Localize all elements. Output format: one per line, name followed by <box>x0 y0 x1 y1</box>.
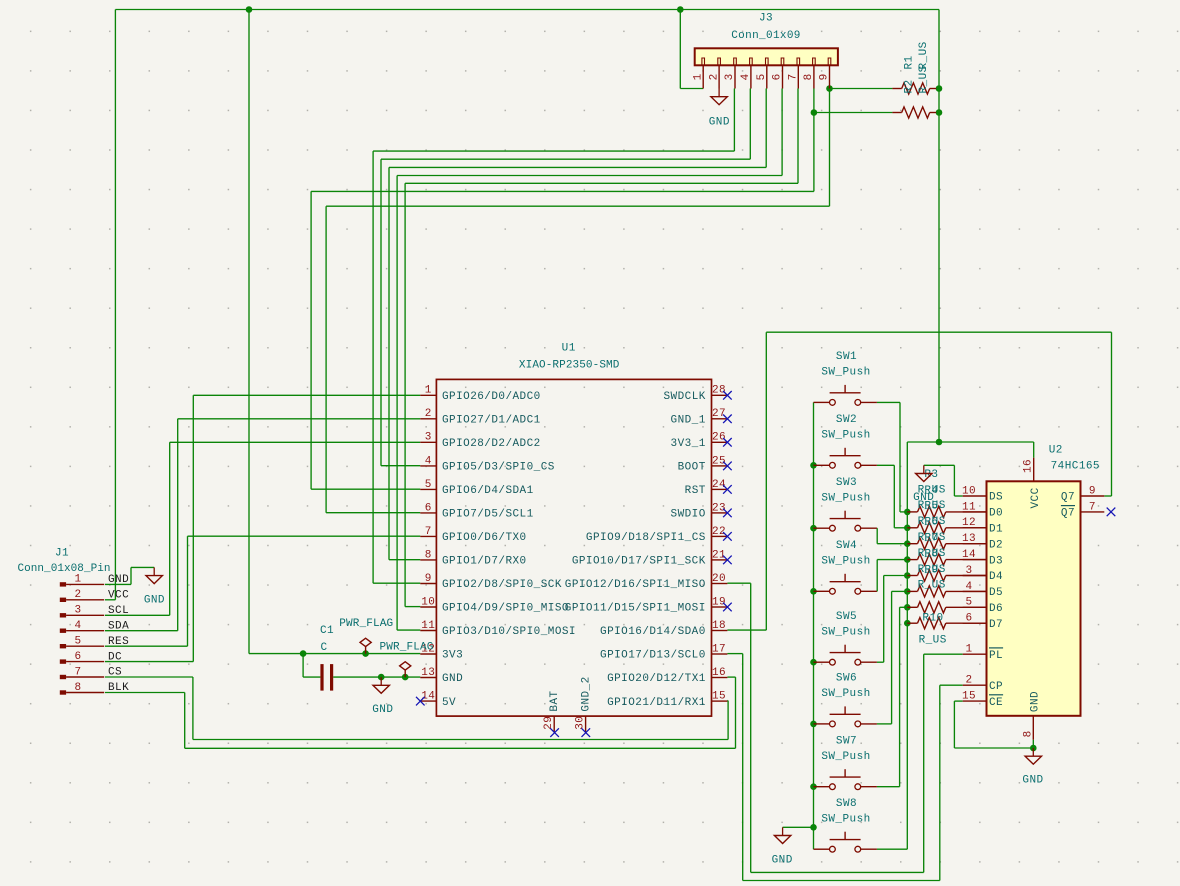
switch SW1 <box>814 401 830 403</box>
power flag PWR_FLAG1 <box>365 647 367 654</box>
wire SDA J1 pin4 to U1 pin2 <box>105 630 178 632</box>
svg-text:R9: R9 <box>924 564 938 576</box>
U1 pin 9 stub <box>420 583 436 585</box>
U1 pin 23 no-connect <box>723 509 732 518</box>
resistor R3 <box>907 511 917 513</box>
svg-text:2: 2 <box>708 73 720 80</box>
svg-text:GPIO2/D8/SPI0_SCK: GPIO2/D8/SPI0_SCK <box>442 579 562 591</box>
IC U1 body <box>436 379 711 716</box>
svg-text:1: 1 <box>425 385 432 397</box>
wire VCC top horizontal <box>115 9 939 11</box>
svg-text:SW4: SW4 <box>836 540 857 552</box>
wire SW4 to R6 row <box>876 590 878 592</box>
node junction U2 GND <box>1030 745 1037 752</box>
wire J3 pin1 to top <box>679 10 681 89</box>
svg-text:GND: GND <box>442 673 463 685</box>
svg-text:GND_1: GND_1 <box>671 415 706 427</box>
wire SW3 to R5 row <box>876 527 878 529</box>
svg-text:GND: GND <box>913 492 934 504</box>
svg-text:6: 6 <box>425 502 432 514</box>
wire U2 GND pin <box>1032 740 1034 748</box>
svg-text:PWR_FLAG: PWR_FLAG <box>379 642 433 654</box>
U1 pin 10 stub <box>420 606 436 608</box>
svg-text:6: 6 <box>74 651 81 663</box>
svg-text:CS: CS <box>108 667 122 679</box>
svg-text:GPIO1/D7/RX0: GPIO1/D7/RX0 <box>442 556 527 568</box>
svg-text:74HC165: 74HC165 <box>1051 460 1100 472</box>
node junction top J3 pin1 tap <box>677 6 684 13</box>
svg-text:5: 5 <box>965 597 972 609</box>
wire R1 left <box>830 88 893 90</box>
node junction R3 row <box>904 509 911 516</box>
wire VCC horizontal to U2 <box>907 441 1033 443</box>
U1 pin 1 stub <box>420 394 436 396</box>
svg-text:Q7: Q7 <box>1061 508 1075 520</box>
wire U2 DS to GND <box>924 464 955 466</box>
node junction SW6 bus <box>810 721 817 728</box>
U2 pin 10 stub <box>963 495 987 497</box>
switch SW4 <box>814 590 830 592</box>
U1 pin 21 stub <box>712 559 728 561</box>
U2 pin 2 stub <box>963 684 987 686</box>
J3 pin 5 stub <box>766 65 768 88</box>
U1 pin 19 no-connect <box>723 603 732 612</box>
U1 pin 20 stub <box>712 583 728 585</box>
svg-text:1: 1 <box>74 574 81 586</box>
svg-text:GPIO27/D1/ADC1: GPIO27/D1/ADC1 <box>442 415 541 427</box>
svg-text:1: 1 <box>692 73 704 80</box>
svg-text:SW8: SW8 <box>836 798 857 810</box>
svg-text:22: 22 <box>712 526 726 538</box>
svg-text:GPIO9/D18/SPI1_CS: GPIO9/D18/SPI1_CS <box>586 532 706 544</box>
ground symbol at U2 GND <box>1032 748 1034 756</box>
svg-text:Conn_01x08_Pin: Conn_01x08_Pin <box>17 563 110 575</box>
switch SW2 <box>814 464 830 466</box>
node junction R2/VCC <box>936 109 943 116</box>
node junction R4 row <box>904 525 911 532</box>
svg-text:2: 2 <box>965 675 972 687</box>
resistor R1 <box>902 83 930 94</box>
svg-text:7: 7 <box>1089 501 1096 513</box>
svg-text:R10: R10 <box>922 613 943 625</box>
U1 pin 26 stub <box>712 441 728 443</box>
U2 pin 11 stub <box>963 511 987 513</box>
ground symbol at J3 pin2 <box>718 89 720 97</box>
wire R2 right to VCC <box>936 112 939 114</box>
U1 pin 29 stub <box>553 716 555 732</box>
svg-text:GPIO6/D4/SDA1: GPIO6/D4/SDA1 <box>442 485 534 497</box>
svg-text:RES: RES <box>108 636 129 648</box>
wire U1 pin20 to U2 PL <box>727 582 750 584</box>
svg-text:21: 21 <box>712 549 726 561</box>
svg-text:6: 6 <box>772 73 784 80</box>
U1 pin 30 stub <box>585 716 587 732</box>
ground symbol at switch bus <box>782 827 784 835</box>
wire SW7 to R9 row <box>877 786 900 788</box>
svg-text:SW6: SW6 <box>836 673 857 685</box>
U2 pin 16 stub VCC <box>1033 458 1035 482</box>
svg-text:GPIO0/D6/TX0: GPIO0/D6/TX0 <box>442 532 527 544</box>
svg-text:5V: 5V <box>442 697 456 709</box>
svg-text:SW2: SW2 <box>836 414 857 426</box>
wire J1 pin1 to GND <box>105 583 131 585</box>
U1 pin 25 no-connect <box>723 462 732 471</box>
node junction R10 row <box>904 620 911 627</box>
wire DC J1 pin6 to U1 pin1 <box>105 661 193 663</box>
svg-text:SW_Push: SW_Push <box>821 813 870 825</box>
node junction R1/VCC <box>936 85 943 92</box>
resistor R8 <box>907 590 917 592</box>
svg-text:27: 27 <box>712 408 726 420</box>
J3 pin 4 stub <box>750 65 752 88</box>
svg-text:J3: J3 <box>759 13 773 25</box>
wire SW2 to R4 row <box>877 464 894 466</box>
wire J3 pin7 to U1 pin10 <box>797 89 799 184</box>
connector J3 body <box>695 48 838 65</box>
svg-text:GPIO16/D14/SDA0: GPIO16/D14/SDA0 <box>600 626 706 638</box>
U1 pin 5 stub <box>420 488 436 490</box>
svg-text:R2: R2 <box>904 79 916 93</box>
wire BLK J1 pin8 to U1 pin16 <box>105 692 185 694</box>
resistor R4 <box>907 527 917 529</box>
svg-text:SW_Push: SW_Push <box>821 556 870 568</box>
svg-text:7: 7 <box>425 526 432 538</box>
svg-text:25: 25 <box>712 455 726 467</box>
U1 pin 19 stub <box>712 606 728 608</box>
U1 pin 8 stub <box>420 559 436 561</box>
svg-text:14: 14 <box>962 549 976 561</box>
svg-text:SWDIO: SWDIO <box>671 509 706 521</box>
svg-text:GPIO7/D5/SCL1: GPIO7/D5/SCL1 <box>442 509 534 521</box>
svg-text:26: 26 <box>712 432 726 444</box>
svg-text:5: 5 <box>74 636 81 648</box>
wire J3 pin3 to U1 pin9 <box>733 89 735 152</box>
U1 pin 3 stub <box>420 441 436 443</box>
U2 pin 5 stub <box>963 606 987 608</box>
svg-text:SWDCLK: SWDCLK <box>663 391 705 403</box>
U1 pin 15 stub <box>712 700 728 702</box>
wire U2 VCC pin drop <box>1033 442 1035 458</box>
svg-text:17: 17 <box>712 643 726 655</box>
svg-text:12: 12 <box>962 517 976 529</box>
svg-text:9: 9 <box>1089 485 1096 497</box>
ground symbol at J1 pin1 <box>153 567 155 575</box>
svg-text:SW_Push: SW_Push <box>821 688 870 700</box>
IC U2 body <box>987 481 1081 716</box>
U1 pin 17 stub <box>712 653 728 655</box>
U1 pin 18 stub <box>712 630 728 632</box>
node junction R9 row <box>904 604 911 611</box>
svg-text:8: 8 <box>803 73 815 80</box>
power flag PWR_FLAG2 <box>404 670 406 677</box>
wire J3 pin5 to U1 pin8 <box>765 89 767 168</box>
svg-text:8: 8 <box>425 549 432 561</box>
wire SW1 to R3 row <box>877 401 900 403</box>
switch SW5 <box>814 661 830 663</box>
svg-text:23: 23 <box>712 502 726 514</box>
svg-text:16: 16 <box>1023 459 1035 473</box>
U1 pin 14 stub <box>420 700 436 702</box>
svg-text:U2: U2 <box>1049 445 1063 457</box>
svg-text:19: 19 <box>712 596 726 608</box>
svg-text:6: 6 <box>965 613 972 625</box>
svg-text:D0: D0 <box>989 508 1003 520</box>
svg-text:16: 16 <box>712 667 726 679</box>
svg-text:8: 8 <box>74 682 81 694</box>
J3 pin 6 stub <box>782 65 784 88</box>
node junction SW4 bus <box>810 588 817 595</box>
U2 pin 12 stub <box>963 527 987 529</box>
U1 pin 29 no-connect <box>550 728 559 737</box>
J3 pin 3 stub <box>734 65 736 88</box>
svg-text:D6: D6 <box>989 603 1003 615</box>
svg-text:15: 15 <box>712 691 726 703</box>
wire SCL J1 pin3 to U1 pin3 <box>105 614 170 616</box>
J3 pin 1 stub <box>702 65 704 88</box>
node junction SW7 bus <box>810 783 817 790</box>
U1 pin 21 no-connect <box>723 556 732 565</box>
svg-text:3: 3 <box>74 605 81 617</box>
J1 pin 3 <box>60 613 66 617</box>
svg-text:30: 30 <box>575 716 587 730</box>
U1 pin 22 stub <box>712 535 728 537</box>
node junction 3V3 cap branch <box>300 650 307 657</box>
svg-text:3: 3 <box>965 565 972 577</box>
svg-text:Q7: Q7 <box>1061 492 1075 504</box>
svg-text:BOOT: BOOT <box>678 462 706 474</box>
wire J3 pin8 to U1 pin5 <box>813 89 815 192</box>
svg-text:C: C <box>320 642 327 654</box>
svg-text:Conn_01x09: Conn_01x09 <box>731 30 801 42</box>
svg-text:GPIO11/D15/SPI1_MOSI: GPIO11/D15/SPI1_MOSI <box>565 603 706 615</box>
J1 pin 8 <box>60 690 66 694</box>
svg-text:24: 24 <box>712 479 726 491</box>
svg-text:28: 28 <box>712 385 726 397</box>
U1 pin 28 no-connect <box>723 391 732 400</box>
U2 pin 15 stub <box>963 700 987 702</box>
U1 pin 27 stub <box>712 418 728 420</box>
svg-text:3: 3 <box>425 432 432 444</box>
svg-text:R6: R6 <box>924 517 938 529</box>
svg-text:D4: D4 <box>989 571 1003 583</box>
svg-text:PWR_FLAG: PWR_FLAG <box>339 618 393 630</box>
svg-text:RST: RST <box>685 485 706 497</box>
node junction R7 row <box>904 572 911 579</box>
resistor R5 <box>907 543 917 545</box>
U1 pin 27 no-connect <box>723 415 732 424</box>
svg-text:SW7: SW7 <box>836 735 857 747</box>
U2 pin 1 stub <box>963 653 987 655</box>
wire C1 to U1 pin13 GND <box>333 676 420 678</box>
svg-text:SW_Push: SW_Push <box>821 626 870 638</box>
wire 3V3 vertical <box>248 10 250 654</box>
resistor R7 <box>907 575 917 577</box>
svg-text:GPIO4/D9/SPI0_MISO: GPIO4/D9/SPI0_MISO <box>442 603 569 615</box>
U1 pin 12 stub <box>420 653 436 655</box>
svg-text:5: 5 <box>425 479 432 491</box>
svg-text:GPIO26/D0/ADC0: GPIO26/D0/ADC0 <box>442 391 541 403</box>
svg-text:11: 11 <box>962 501 976 513</box>
node junction R5 row <box>904 540 911 547</box>
svg-text:8: 8 <box>1022 730 1034 737</box>
J1 pin 2 <box>60 598 66 602</box>
svg-text:7: 7 <box>74 666 81 678</box>
svg-text:13: 13 <box>421 667 435 679</box>
node junction VCC distribution <box>936 439 943 446</box>
svg-text:18: 18 <box>712 620 726 632</box>
svg-text:4: 4 <box>74 620 81 632</box>
svg-text:GND: GND <box>144 594 165 606</box>
wire R1 right to VCC <box>936 88 939 90</box>
svg-text:U1: U1 <box>562 343 576 355</box>
svg-text:SW_Push: SW_Push <box>821 492 870 504</box>
wire SW6 to R8 row <box>877 723 892 725</box>
svg-text:4: 4 <box>740 73 752 80</box>
J1 pin 1 <box>60 582 66 586</box>
svg-text:D7: D7 <box>989 619 1003 631</box>
U1 pin 4 stub <box>420 465 436 467</box>
U2 pin 14 stub <box>963 559 987 561</box>
svg-text:D5: D5 <box>989 587 1003 599</box>
svg-text:DS: DS <box>989 492 1003 504</box>
wire U2 CE to GND <box>954 700 962 702</box>
svg-text:SW_Push: SW_Push <box>821 751 870 763</box>
wire SW5 to R7 row <box>877 661 884 663</box>
wire RES J1 pin5 to U1 pin7 <box>105 645 188 647</box>
svg-text:CP: CP <box>989 681 1003 693</box>
J3 pin 9 stub <box>829 65 831 88</box>
wire J3 pin4 to U1 pin4 <box>749 89 751 160</box>
U2 pin 13 stub <box>963 543 987 545</box>
node junction J3 pin8 / R2 <box>811 109 818 116</box>
node junction PWR_FLAG1 <box>362 650 369 657</box>
J1 pin 4 <box>60 629 66 633</box>
svg-text:SW_Push: SW_Push <box>821 367 870 379</box>
svg-text:D1: D1 <box>989 524 1003 536</box>
J3 pin 8 stub <box>813 65 815 88</box>
node junction SW5 bus <box>810 659 817 666</box>
node junction SW2 bus <box>810 462 817 469</box>
svg-text:SW_Push: SW_Push <box>821 430 870 442</box>
U1 pin 28 stub <box>712 394 728 396</box>
wire U2 Q7 to U1 pin18 <box>1104 495 1111 497</box>
svg-text:J1: J1 <box>55 547 69 559</box>
svg-text:GND: GND <box>1029 691 1041 712</box>
U2 pin 4 stub <box>963 590 987 592</box>
wire C1 branch <box>302 654 304 678</box>
node junction top-left 3V3 tap <box>246 6 253 13</box>
svg-text:9: 9 <box>425 573 432 585</box>
svg-text:2: 2 <box>74 589 81 601</box>
svg-text:9: 9 <box>819 73 831 80</box>
svg-text:GPIO28/D2/ADC2: GPIO28/D2/ADC2 <box>442 438 541 450</box>
svg-text:5: 5 <box>756 73 768 80</box>
svg-text:VCC: VCC <box>1030 487 1042 508</box>
U2 pin 7 no-connect <box>1107 508 1116 517</box>
svg-text:GND: GND <box>772 854 793 866</box>
svg-text:4: 4 <box>965 581 972 593</box>
svg-text:C1: C1 <box>320 625 334 637</box>
switch SW7 <box>814 786 830 788</box>
svg-text:SW1: SW1 <box>836 351 857 363</box>
node junction R6 row <box>904 556 911 563</box>
svg-text:2: 2 <box>425 408 432 420</box>
resistor R2 <box>902 107 930 118</box>
svg-text:DC: DC <box>108 651 122 663</box>
svg-text:GPIO10/D17/SPI1_SCK: GPIO10/D17/SPI1_SCK <box>572 556 706 568</box>
wire J3 pin9 to U1 pin6 <box>829 89 831 207</box>
switch SW6 <box>814 723 830 725</box>
svg-text:GPIO12/D16/SPI1_MISO: GPIO12/D16/SPI1_MISO <box>565 579 706 591</box>
J1 pin 7 <box>60 675 66 679</box>
svg-text:10: 10 <box>962 485 976 497</box>
wire J3 pin6 to U1 pin11 <box>781 89 783 176</box>
wire VCC left vertical to J1 pin2 <box>114 10 116 600</box>
U1 pin 22 no-connect <box>723 532 732 541</box>
svg-text:GND_2: GND_2 <box>581 676 593 711</box>
wire SW8 to R10 row <box>877 848 907 850</box>
node junction PWR_FLAG2 <box>402 674 409 681</box>
node junction R8 row <box>904 588 911 595</box>
node junction SW3 bus <box>810 525 817 532</box>
svg-text:SCL: SCL <box>108 605 129 617</box>
node junction J3 pin9 <box>826 85 833 92</box>
svg-text:R8: R8 <box>924 548 938 560</box>
svg-text:D3: D3 <box>989 555 1003 567</box>
ground symbol at U2 DS <box>923 465 925 473</box>
U2 pin 6 stub <box>963 622 987 624</box>
svg-text:14: 14 <box>421 691 435 703</box>
U1 pin 23 stub <box>712 512 728 514</box>
svg-text:SDA: SDA <box>108 620 129 632</box>
J3 pin 7 stub <box>797 65 799 88</box>
svg-text:20: 20 <box>712 573 726 585</box>
svg-text:GND: GND <box>108 574 129 586</box>
svg-text:R_US: R_US <box>918 65 930 93</box>
switch SW8 <box>814 848 830 850</box>
U1 pin 13 stub <box>420 677 436 679</box>
wire VCC right vertical <box>938 10 940 443</box>
U2 pin 9 stub <box>1081 495 1105 497</box>
svg-text:GPIO21/D11/RX1: GPIO21/D11/RX1 <box>607 697 706 709</box>
wire VCC pull-up bus vertical <box>906 442 908 849</box>
svg-text:GPIO3/D10/SPI0_MOSI: GPIO3/D10/SPI0_MOSI <box>442 626 576 638</box>
J1 pin 5 <box>60 644 66 648</box>
J3 pin 2 stub <box>718 65 720 88</box>
U1 pin 24 no-connect <box>723 485 732 494</box>
svg-text:R_US: R_US <box>919 635 947 647</box>
svg-text:1: 1 <box>965 644 972 656</box>
svg-text:D2: D2 <box>989 539 1003 551</box>
svg-text:15: 15 <box>962 691 976 703</box>
svg-text:CE: CE <box>989 697 1003 709</box>
svg-text:BLK: BLK <box>108 682 129 694</box>
svg-text:R_US: R_US <box>918 580 946 592</box>
svg-text:7: 7 <box>788 73 800 80</box>
svg-text:13: 13 <box>962 533 976 545</box>
svg-text:VCC: VCC <box>108 590 129 602</box>
capacitor C1 <box>320 664 323 691</box>
wire R2 left <box>814 112 893 114</box>
svg-text:29: 29 <box>543 716 555 730</box>
svg-text:PL: PL <box>989 650 1003 662</box>
svg-text:GND: GND <box>372 704 393 716</box>
svg-text:GPIO17/D13/SCL0: GPIO17/D13/SCL0 <box>600 650 706 662</box>
svg-text:BAT: BAT <box>549 690 561 711</box>
svg-text:R_US: R_US <box>918 41 930 69</box>
resistor R9 <box>907 606 917 608</box>
svg-text:R7: R7 <box>924 533 938 545</box>
